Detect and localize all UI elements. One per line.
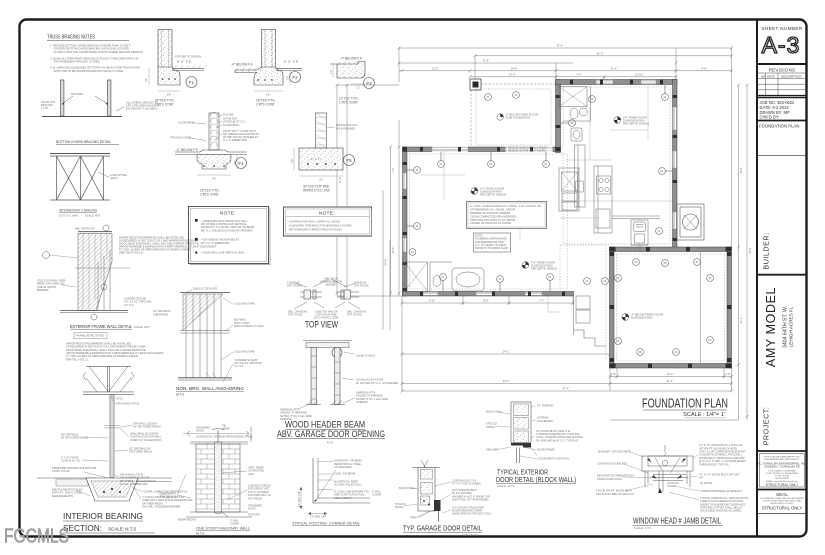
- svg-text:EXTERIOR FRAME WALL DETAIL: EXTERIOR FRAME WALL DETAIL: [70, 324, 133, 329]
- interior: bath top-left: [559, 87, 591, 142]
- svg-text:1'6": 1'6": [167, 93, 171, 97]
- footing detail F2: [231, 30, 302, 107]
- svg-text:BEAM: BEAM: [222, 427, 229, 431]
- plumbing note box: [474, 233, 511, 252]
- svg-text:F2: F2: [292, 75, 298, 80]
- svg-text:SCALE : N.T.S: SCALE : N.T.S: [634, 526, 651, 530]
- svg-text:11'-4": 11'-4": [338, 177, 342, 183]
- garage door recess segment: [506, 147, 553, 152]
- wall: lanai bottom wall: [610, 364, 732, 369]
- svg-text:FOUNDATION PLAN: FOUNDATION PLAN: [759, 124, 800, 129]
- typical footing corner detail: [292, 458, 381, 526]
- svg-text:ABV. GARAGE DOOR OPENING: ABV. GARAGE DOOR OPENING: [277, 429, 385, 439]
- svg-text:CROWN UP ROAD OR AS NOTED: CROWN UP ROAD OR AS NOTED: [470, 221, 511, 225]
- svg-text:AS SPECIFIED: AS SPECIFIED: [334, 465, 352, 469]
- svg-text:2'0" MIN. LAP: 2'0" MIN. LAP: [310, 515, 326, 519]
- svg-text:51'-0": 51'-0": [597, 51, 604, 55]
- svg-text:25'-0": 25'-0": [391, 247, 395, 254]
- svg-text:1'8": 1'8": [290, 159, 294, 163]
- interior: kitchen counters: [559, 145, 585, 211]
- svg-text:NOTE:: NOTE:: [220, 211, 236, 216]
- svg-text:PER TBL A-702.1.1: PER TBL A-702.1.1: [66, 357, 89, 361]
- svg-text:SCALE : 1/4"= 1': SCALE : 1/4"= 1': [683, 412, 725, 418]
- svg-text:9'-8": 9'-8": [701, 66, 706, 70]
- svg-text:2'0" MIN. LAP: 2'0" MIN. LAP: [297, 491, 301, 507]
- svg-text:HOOK: HOOK: [248, 507, 256, 511]
- svg-text:10'-0" O.C. MAX.: 10'-0" O.C. MAX.: [59, 213, 79, 217]
- svg-text:BUILDER:: BUILDER:: [762, 232, 771, 269]
- svg-text:FOUNDATION PLAN: FOUNDATION PLAN: [642, 397, 728, 411]
- svg-text:4'-0": 4'-0": [576, 72, 581, 76]
- svg-text:EA TRISS BY 2 16d NAILS: EA TRISS BY 2 16d NAILS: [126, 107, 157, 111]
- svg-text:NON. BRG. WALL ANCHORING: NON. BRG. WALL ANCHORING: [176, 386, 244, 391]
- svg-text:CONTINUOUS SEALANT: CONTINUOUS SEALANT: [597, 462, 627, 466]
- svg-text:F3: F3: [366, 81, 372, 86]
- svg-text:STRUCTURAL ONLY: STRUCTURAL ONLY: [766, 483, 799, 487]
- svg-text:SCALE N.T.S: SCALE N.T.S: [462, 533, 478, 537]
- svg-text:14'-8": 14'-8": [511, 66, 518, 70]
- svg-text:21'-1": 21'-1": [739, 317, 743, 324]
- svg-text:SYP STUDS: SYP STUDS: [287, 284, 302, 288]
- elevation marker: garage: [497, 113, 538, 121]
- svg-text:1'2" O.C.: 1'2" O.C.: [124, 303, 135, 307]
- svg-text:JOSEPH C. KOWALSKI PE: JOSEPH C. KOWALSKI PE: [764, 465, 800, 469]
- svg-text:W/#5'S 6"O.C. EW.: W/#5'S 6"O.C. EW.: [303, 189, 330, 193]
- svg-text:SEAL: SEAL: [776, 492, 788, 497]
- svg-text:ON 6 MIL. VISQUEEN BARRIER: ON 6 MIL. VISQUEEN BARRIER: [142, 505, 180, 509]
- svg-text:5'-10": 5'-10": [429, 299, 436, 303]
- svg-text:24": 24": [144, 78, 148, 82]
- svg-text:ALT.S.: ALT.S.: [176, 393, 185, 397]
- footing detail F1: [144, 30, 207, 107]
- svg-text:PER SEPTIC DESIGN: PER SEPTIC DESIGN: [531, 267, 557, 271]
- intermediate X bracing detail: [50, 154, 110, 201]
- typ garage door detail: [395, 460, 492, 537]
- svg-text:-4" BELOW F.F.: -4" BELOW F.F.: [231, 63, 253, 67]
- elevation marker: lanai: [622, 313, 663, 321]
- svg-text:HORIZONTAL TIE BEAM REINFORCIN: HORIZONTAL TIE BEAM REINFORCING STEEL: [196, 435, 254, 439]
- svg-text:SCALE: NTS: SCALE: NTS: [85, 213, 100, 217]
- svg-text:SCALE: N.T.S: SCALE: N.T.S: [108, 527, 136, 532]
- svg-text:SYP STUDS: SYP STUDS: [347, 313, 362, 317]
- svg-text:PROCTOR SOIL SUB LOT 18" A: PROCTOR SOIL SUB LOT 18" ABOVE: [470, 218, 516, 222]
- svg-text:R-13 INS.: R-13 INS.: [223, 113, 235, 117]
- svg-text:-4" BELOW F.F.: -4" BELOW F.F.: [340, 57, 362, 61]
- svg-text:SET IN FULL BED OF SEALANT: SET IN FULL BED OF SEALANT: [596, 492, 635, 496]
- svg-text:32": 32": [319, 178, 323, 182]
- svg-text:ONE STORY MASONRY WALL: ONE STORY MASONRY WALL: [196, 526, 250, 530]
- frame wall detail F4: [170, 112, 259, 197]
- garage dashed outline: [471, 84, 556, 147]
- note box 2 (verify openings): [284, 207, 372, 237]
- slab + footing: [37, 477, 96, 479]
- svg-text:CLUB W 16" OC: CLUB W 16" OC: [61, 459, 80, 463]
- svg-text:FOR SEPTIC DESIGN: FOR SEPTIC DESIGN: [175, 55, 201, 59]
- note box 1 (symbols legend): [189, 207, 271, 265]
- job info: [757, 97, 807, 99]
- wall: main top wall: [556, 80, 678, 85]
- svg-text:W/ TEXTURED WALLS: W/ TEXTURED WALLS: [61, 436, 89, 440]
- top view detail: [287, 277, 369, 330]
- elevation marker: left wing: [471, 187, 506, 197]
- svg-text:STRUCTURAL ONLY: STRUCTURAL ONLY: [762, 505, 802, 510]
- svg-text:ALT.S.: ALT.S.: [196, 531, 205, 535]
- svg-text:1'8": 1'8": [286, 76, 290, 80]
- svg-text:SPH # EACH STUD: SPH # EACH STUD: [116, 402, 139, 406]
- svg-text:SHEET NUMBER: SHEET NUMBER: [761, 26, 802, 31]
- svg-text:30'-4": 30'-4": [739, 167, 743, 174]
- truss connection: [83, 366, 134, 394]
- svg-text:2 #5'S CONT.: 2 #5'S CONT.: [200, 193, 219, 197]
- svg-text:EA. END AND @ (P. O.C. TYP)(1/: EA. END AND @ (P. O.C. TYP)(1/4)": [536, 438, 578, 442]
- svg-text:FOOTING: FOOTING: [248, 513, 260, 517]
- wood header beam detail: [277, 341, 399, 445]
- svg-text:PER SEPTIC DESIGN: PER SEPTIC DESIGN: [623, 122, 649, 126]
- svg-text:BLOCK WALL: BLOCK WALL: [486, 410, 503, 414]
- grouted cell dark marks: [403, 80, 732, 369]
- svg-text:DOOR FRAME: DOOR FRAME: [537, 448, 555, 452]
- svg-text:IN THE FOREGOING/THE CERT. SE: IN THE FOREGOING/THE CERT. SEAL: [762, 500, 802, 503]
- svg-text:SYP STUDS: SYP STUDS: [354, 284, 369, 288]
- svg-text:R/3 #5 REBARD: R/3 #5 REBARD: [336, 126, 355, 130]
- svg-text:0' 0" F.F.: 0' 0" F.F.: [177, 60, 192, 64]
- svg-text:TOP VIEW: TOP VIEW: [305, 320, 338, 330]
- svg-text:PER 2021.5.3: PER 2021.5.3: [160, 495, 177, 499]
- svg-text:INSTITUTE TO BE INCORPORATE: INSTITUTE TO BE INCORPORATED INTO ROOF S…: [54, 69, 124, 73]
- svg-text:SINGLE TOP PLATE: SINGLE TOP PLATE: [193, 287, 217, 291]
- wall: left wing top wall: [403, 147, 561, 152]
- pad detail F5: [290, 113, 358, 193]
- svg-text:16'-0": 16'-0": [667, 372, 674, 376]
- svg-text:1'2": 1'2": [356, 86, 360, 90]
- window gaps right wall: [673, 107, 677, 229]
- slab edge dashed offsets: [410, 87, 725, 361]
- svg-text:BARRIER ON POROUS TERMITE: BARRIER ON POROUS TERMITE: [470, 211, 510, 215]
- svg-text:1'2": 1'2": [329, 70, 333, 74]
- svg-text:50'-4": 50'-4": [384, 259, 388, 266]
- wall: left outer wall: [403, 147, 408, 296]
- wall: left wing bottom wall: [403, 292, 574, 297]
- interior: master bath bottom-left: [405, 262, 485, 292]
- svg-text:BOTTOM CHORD BRACING DETAIL: BOTTOM CHORD BRACING DETAIL: [56, 140, 111, 144]
- right dimension lines: [610, 85, 747, 420]
- svg-text:50'-4": 50'-4": [748, 247, 752, 254]
- svg-text:TEXTURED WALLS: TEXTURED WALLS: [129, 450, 153, 454]
- svg-text:THIS PLAN HAS BEEN APPROVED: THIS PLAN HAS BEEN APPROVED: [764, 456, 800, 459]
- svg-text:TRUSS BRACING NOTES: TRUSS BRACING NOTES: [47, 35, 95, 41]
- fireplace bump-out: [677, 204, 704, 240]
- svg-text:57'-4": 57'-4": [557, 44, 564, 48]
- svg-text:0' 0" F.F.: 0' 0" F.F.: [284, 60, 299, 64]
- foundation plan title: [642, 397, 728, 419]
- typical exterior door detail: [486, 402, 583, 488]
- svg-text:CHK'D BY:: CHK'D BY:: [760, 115, 780, 120]
- svg-text:INTERMEDIATE X BRACING: INTERMEDIATE X BRACING: [59, 209, 97, 213]
- svg-text:THE PERMANENT BRACING SYSTE: THE PERMANENT BRACING SYSTEM: [54, 60, 100, 64]
- svg-text:W/ 16d NAILS 6" O.C. STAGGERED: W/ 16d NAILS 6" O.C. STAGGERED: [356, 381, 399, 385]
- svg-text:= INDICATES (1) #5 VERTICAL BA: = INDICATES (1) #5 VERTICAL BAR: [201, 250, 244, 254]
- svg-text:DATE: DATE: [767, 74, 775, 78]
- svg-text:12'-0": 12'-0": [432, 66, 439, 70]
- svg-text:FINISH: FINISH: [395, 505, 404, 509]
- svg-text:13'-0": 13'-0": [509, 72, 516, 76]
- svg-text:DBL TOP PLATE: DBL TOP PLATE: [75, 227, 95, 231]
- svg-text:-4" BELOW F.F.: -4" BELOW F.F.: [176, 148, 198, 152]
- svg-text:NO CHANGES SHALL BE INCORPORAT: NO CHANGES SHALL BE INCORPORATED: [760, 497, 804, 500]
- exterior frame wall detail: [37, 225, 217, 339]
- svg-text:RECESS ENTIRE ON 4" SLOPE: RECESS ENTIRE ON 4" SLOPE: [508, 148, 546, 152]
- svg-text:CONC. TIE BEAM: CONC. TIE BEAM: [334, 472, 355, 476]
- svg-text:CLOSE TO BOTTOM CHORD PANE: CLOSE TO BOTTOM CHORD PANEL POINTS WHERE…: [54, 50, 143, 54]
- svg-text:O.C. 6" EMBED MIN.: O.C. 6" EMBED MIN.: [223, 138, 248, 142]
- svg-text:TYPICAL FOOTING- CORNER DET: TYPICAL FOOTING- CORNER DETAIL: [292, 521, 360, 525]
- svg-text:F5: F5: [346, 158, 352, 163]
- svg-text:P.T. FURRING: P.T. FURRING: [537, 404, 554, 408]
- svg-text:10'-1/2": 10'-1/2": [635, 72, 644, 76]
- svg-text:21'-4": 21'-4": [667, 379, 674, 383]
- wall: lanai top wall: [610, 247, 732, 252]
- svg-text:1 #5'S CONT.: 1 #5'S CONT.: [339, 101, 358, 105]
- svg-text:6 - 0. 2 ?: 6 - 0. 2 ?: [311, 157, 322, 161]
- title block separator: [756, 20, 758, 536]
- svg-text:L TYP.: L TYP.: [41, 106, 49, 110]
- svg-text:2-12d NAILS MIN.: 2-12d NAILS MIN.: [234, 350, 255, 354]
- one story masonry wall detail: [159, 424, 271, 536]
- svg-text:IN CONC FILLED CELL: IN CONC FILLED CELL: [334, 483, 362, 487]
- svg-text:STUDS @ 16" O.C.: STUDS @ 16" O.C.: [223, 120, 246, 124]
- vertical dim between details and plan: [383, 190, 390, 330]
- svg-text:2'-8": 2'-8": [725, 372, 730, 376]
- svg-text:SCALE : N.T.S: SCALE : N.T.S: [497, 484, 514, 488]
- svg-text:REVISIONS: REVISIONS: [769, 68, 796, 73]
- svg-text:DOOR DETAIL (BLOCK WALL): DOOR DETAIL (BLOCK WALL): [496, 477, 576, 484]
- svg-text:1'6": 1'6": [266, 93, 270, 97]
- svg-text:CELL: CELL: [248, 472, 255, 476]
- svg-text:W/ TEXTURED FINISH: W/ TEXTURED FINISH: [134, 425, 161, 429]
- engineer stamp block: [760, 454, 805, 488]
- svg-text:BLOCK WALL: BLOCK WALL: [399, 486, 416, 490]
- left dimension lines: [337, 85, 402, 296]
- svg-text:PLATE SYP #2: PLATE SYP #2: [52, 469, 70, 473]
- svg-text:THROUGHOUT TYPICAL: THROUGHOUT TYPICAL: [699, 462, 730, 466]
- svg-text:2 #5'S CONT.: 2 #5'S CONT.: [256, 103, 275, 107]
- bottom chord bracing detail: [42, 80, 122, 117]
- svg-text:OPENING: OPENING: [356, 400, 368, 404]
- footing detail F3: [329, 57, 375, 105]
- svg-text:50" O.C. 6" EMBED MIN.: 50" O.C. 6" EMBED MIN.: [201, 241, 230, 245]
- window segment in top wall: [432, 147, 468, 152]
- svg-text:7'-0": 7'-0": [538, 299, 543, 303]
- svg-text:NOT REQ'D: NOT REQ'D: [248, 496, 262, 500]
- svg-text:SHEATHING: SHEATHING: [153, 312, 168, 316]
- slab spec box: [467, 202, 547, 229]
- svg-text:CA #30529997: CA #30529997: [775, 477, 790, 480]
- svg-text:PER SEPTIC DESIGN: PER SEPTIC DESIGN: [480, 193, 506, 197]
- svg-text:PRIOR TO POURING SLAB: PRIOR TO POURING SLAB: [475, 246, 508, 250]
- svg-text:2'-8": 2'-8": [611, 372, 616, 376]
- svg-text:BARRIER: BARRIER: [37, 288, 49, 292]
- interior: island w/ range: [594, 166, 612, 233]
- svg-text:N.T.S: N.T.S: [327, 441, 334, 445]
- svg-text:34'-2": 34'-2": [503, 379, 510, 383]
- svg-text:& MASONRY OPENINGS FOR WIND: & MASONRY OPENINGS FOR WINDOWS & DOORS: [289, 223, 352, 227]
- svg-text:HT/22: HT/22: [116, 397, 124, 401]
- svg-text:1'2" O.C.: 1'2" O.C.: [234, 364, 245, 368]
- svg-text:24'-2": 24'-2": [503, 350, 510, 354]
- svg-text:REINFORCING: REINFORCING: [178, 518, 196, 522]
- garage corner column: [470, 79, 481, 90]
- wall: lanai right wall: [727, 247, 732, 368]
- svg-text:HOOK: HOOK: [196, 429, 204, 433]
- svg-text:15'-4": 15'-4": [483, 299, 490, 303]
- svg-text:7'-2": 7'-2": [391, 167, 395, 172]
- circled markers: [407, 85, 713, 355]
- svg-text:SIZE & REINF): SIZE & REINF): [334, 496, 352, 500]
- svg-text:LEHIGH ACRES FL: LEHIGH ACRES FL: [789, 306, 794, 347]
- small interior dims: [421, 86, 672, 240]
- svg-text:OVER 8'-0" IN ELEVATION: OVER 8'-0" IN ELEVATION: [130, 438, 162, 442]
- svg-text:DOOR AND FLOOR PLAN: DOOR AND FLOOR PLAN: [538, 457, 569, 461]
- svg-text:COVER: COVER: [372, 493, 381, 497]
- dimension tick marks: [336, 47, 749, 419]
- interior: wet bar + entry: [612, 216, 660, 251]
- svg-text:PROJECT:: PROJECT:: [762, 407, 771, 446]
- svg-text:CONTINUOUS BEAD OF SEALANT: CONTINUOUS BEAD OF SEALANT: [700, 489, 742, 493]
- wall: main right wall: [673, 80, 678, 252]
- svg-text:NOTE:: NOTE:: [319, 211, 335, 216]
- svg-text:TYPICAL EXTERIOR: TYPICAL EXTERIOR: [497, 470, 548, 477]
- svg-text:AMY MODEL: AMY MODEL: [764, 287, 778, 367]
- svg-text:WALLS OVER 9'-0" ELEV.: WALLS OVER 9'-0" ELEV.: [234, 324, 265, 328]
- svg-text:SLAB ELEVATION: SLAB ELEVATION: [631, 316, 653, 320]
- svg-text:(W/HD SPEC BY PROJECT (DC.): (W/HD SPEC BY PROJECT (DC.): [452, 512, 492, 516]
- elevation marker: main body: [614, 116, 649, 126]
- svg-text:NO DOUBLE BUCKING ALLOWED: NO DOUBLE BUCKING ALLOWED: [700, 509, 741, 513]
- bottom chord bracing label: [56, 140, 119, 144]
- svg-text:W/ GAL 6" EMBED MIN.: W/ GAL 6" EMBED MIN.: [120, 482, 148, 486]
- window head and jamb detail: [596, 443, 748, 530]
- svg-text:CLEAR CELL: CLEAR CELL: [249, 426, 253, 442]
- svg-text:1'8": 1'8": [233, 161, 237, 165]
- svg-text:P.T. 1"X 4" WOOD BUCK OPT SET: P.T. 1"X 4" WOOD BUCK OPT SET: [699, 472, 740, 476]
- svg-text:1/2 DRYWALL: 1/2 DRYWALL: [223, 123, 240, 127]
- top dimension lines: [399, 48, 732, 247]
- svg-text:(2) DETAIL: (2) DETAIL: [700, 481, 713, 485]
- svg-text:& BOTTOM, 2/4" IN BETWEEN: & BOTTOM, 2/4" IN BETWEEN: [452, 498, 488, 502]
- svg-text:HOLLBOARD: HOLLBOARD: [537, 419, 553, 423]
- svg-text:57'-4": 57'-4": [563, 387, 570, 391]
- svg-text:P.T.Y.P. TIGHT & JAMBS: P.T.Y.P. TIGHT & JAMBS: [452, 482, 481, 486]
- wall: garage right wall: [556, 80, 561, 153]
- svg-text:TRIM: TRIM: [410, 515, 416, 519]
- svg-text:SYP STUDS: SYP STUDS: [288, 313, 303, 317]
- svg-text:WITH MANUFACTURERS SPECIFICA: WITH MANUFACTURERS SPECIFICATIONS.: [289, 227, 343, 231]
- svg-text:FRAME DETAIL NOTES: FRAME DETAIL NOTES: [76, 334, 105, 338]
- bottom dimension lines: [402, 296, 732, 391]
- svg-text:4" CONC. SLAB W/ 6/X6/10 P.S.I: 4" CONC. SLAB W/ 6/X6/10 P.S.I W/6x6 - 1…: [470, 204, 541, 208]
- svg-text:17103 SAND DOLLAR WAY: 17103 SAND DOLLAR WAY: [768, 469, 796, 472]
- svg-text:F4: F4: [238, 161, 244, 166]
- truss bracing notes: [47, 35, 143, 73]
- svg-text:SLAB FOUNDATION: SLAB FOUNDATION: [506, 116, 530, 120]
- svg-text:FINISH: FINISH: [486, 425, 495, 429]
- svg-text:F1: F1: [189, 80, 195, 85]
- svg-text:REQUIREMENTS: REQUIREMENTS: [52, 494, 73, 498]
- svg-text:DESCRIPTION: DESCRIPTION: [781, 74, 802, 78]
- wall: lanai left wall: [610, 247, 615, 368]
- svg-text:TYP. GARAGE DOOR DETAIL: TYP. GARAGE DOOR DETAIL: [403, 524, 482, 533]
- svg-text:HEADER: HEADER: [326, 283, 337, 287]
- svg-text:WINDOW HEAD # JAMB DETAIL: WINDOW HEAD # JAMB DETAIL: [633, 517, 721, 526]
- svg-text:(SEE TBL R-703.1.1): (SEE TBL R-703.1.1): [119, 251, 143, 255]
- svg-text:21'-4": 21'-4": [611, 66, 618, 70]
- svg-text:12d @ 6" NAILS: 12d @ 6" NAILS: [356, 354, 375, 358]
- svg-text:3/4": 3/4": [699, 476, 704, 480]
- svg-text:INTERIOR BEARING: INTERIOR BEARING: [63, 511, 143, 521]
- non-bearing wall anchoring detail: [176, 287, 265, 397]
- svg-text:MP. O.C. AND @ EACH SIDE OF O: MP. O.C. AND @ EACH SIDE OF OPENING: [201, 228, 252, 232]
- sheet number box: [757, 63, 807, 65]
- svg-text:A-3: A-3: [762, 32, 801, 58]
- svg-text:FORT MYERS, FLORIDA 33908: FORT MYERS, FLORIDA 33908: [766, 472, 798, 475]
- svg-text:UP FIBERMESH ON .006 MIL. VA: UP FIBERMESH ON .006 MIL. VAPOR: [470, 208, 515, 212]
- svg-text:2-12d NAILS MIN.: 2-12d NAILS MIN.: [234, 302, 255, 306]
- svg-text:COVER: COVER: [230, 522, 239, 526]
- svg-text:NAILS: NAILS: [110, 176, 118, 180]
- interior bearing section detail: [37, 341, 193, 533]
- svg-text:FGCMLS: FGCMLS: [4, 526, 69, 548]
- utility room thin walls + steps: [548, 296, 606, 346]
- svg-text:FINISH OVER CONC.: FINISH OVER CONC.: [597, 477, 623, 481]
- svg-text:SCALE: NTS: SCALE: NTS: [134, 325, 149, 329]
- svg-text:MASONRY OR CONCRETE: MASONRY OR CONCRETE: [598, 450, 631, 454]
- svg-text:CLEAN COMPACTED (95% MODIFIE: CLEAN COMPACTED (95% MODIFIED: [470, 214, 516, 218]
- svg-text:31'-8": 31'-8": [483, 59, 490, 63]
- svg-text:CONTRACTOR SHALL VERIFY ALL: CONTRACTOR SHALL VERIFY ALL WOOD: [289, 219, 340, 223]
- svg-text:2 #5'S CONT.: 2 #5'S CONT.: [155, 103, 174, 107]
- svg-text:1'6": 1'6": [212, 177, 216, 181]
- svg-text:TRUSSES: TRUSSES: [71, 92, 84, 96]
- elevation marker: utility: [522, 261, 557, 271]
